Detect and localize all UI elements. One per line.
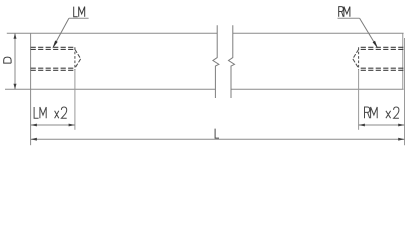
- shaft bottom edge left segment (with D extension to left): [5, 88, 216, 90]
- L left arrowhead: [31, 138, 37, 141]
- right hole depth extension line down to RM x 2 dimension: [358, 70, 360, 130]
- RM x 2 right arrowhead: [398, 124, 404, 127]
- right hole drill point cone: [353, 49, 359, 68]
- LM x 2 right arrowhead: [69, 124, 75, 127]
- L dimension line: [31, 138, 405, 140]
- LM leader underline: [69, 17, 89, 19]
- right tapped hole: thread outer bottom dashed line: [359, 69, 404, 71]
- right tapped hole: thread outer top dashed line: [359, 46, 404, 48]
- label LM x 2: [34, 107, 67, 118]
- LM x 2 left arrowhead: [31, 124, 37, 127]
- shaft top edge right segment: [233, 32, 404, 34]
- right extension line for RM x 2 and L: [404, 38, 406, 145]
- left hole depth dashed vertical: [74, 47, 76, 70]
- RM leader diagonal: [360, 18, 378, 47]
- RM x 2 dimension line: [359, 124, 405, 126]
- L right arrowhead: [398, 138, 404, 141]
- right tapped hole: pilot top dashed line: [359, 48, 404, 50]
- left hole drill point cone: [75, 49, 81, 68]
- LM x 2 dimension line: [31, 124, 75, 126]
- left tapped hole: pilot bottom dashed line: [31, 67, 75, 69]
- D dimension arrow down: [14, 84, 17, 90]
- label D (rotated): [4, 57, 11, 63]
- shaft top edge left segment (with D extension to left): [7, 32, 217, 34]
- RM x 2 left arrowhead: [359, 124, 365, 127]
- shaft left edge + L extension line below: [30, 33, 32, 145]
- right tapped hole: pilot bottom dashed line: [359, 67, 404, 69]
- break line right: [229, 25, 235, 98]
- left tapped hole: thread outer top dashed line: [31, 46, 75, 48]
- shaft bottom edge right segment: [231, 88, 403, 90]
- label RM: [339, 7, 350, 17]
- RM leader underline: [338, 17, 360, 19]
- left tapped hole: thread outer bottom dashed line: [31, 69, 75, 71]
- D dimension arrow up: [14, 33, 17, 39]
- label L: [215, 129, 219, 139]
- right hole depth dashed vertical: [358, 47, 360, 70]
- LM leader arrowhead: [53, 41, 58, 49]
- RM leader arrowhead: [373, 41, 378, 49]
- break line left: [213, 25, 219, 98]
- shaft right edge: [402, 33, 404, 89]
- LM leader diagonal: [53, 18, 69, 47]
- left hole depth extension line down to LM x 2 dimension: [74, 70, 76, 130]
- left tapped hole: pilot top dashed line: [31, 48, 75, 50]
- label RM x 2: [365, 107, 399, 118]
- label LM: [74, 7, 85, 17]
- D dimension line vertical: [14, 33, 16, 89]
